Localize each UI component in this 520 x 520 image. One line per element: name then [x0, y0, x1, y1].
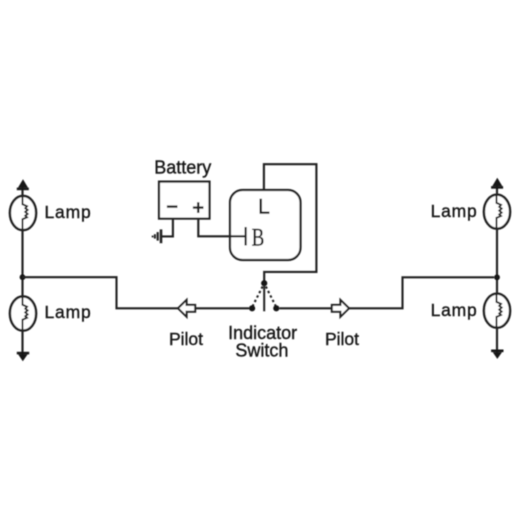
arrow: left pilot (open arrow): [178, 300, 195, 317]
node: right column junction: [494, 274, 500, 280]
ground (chassis, pointing left): [153, 229, 161, 243]
svg-text:Lamp: Lamp: [431, 201, 478, 221]
svg-text:L: L: [258, 195, 270, 219]
arrow: left column bottom: [17, 352, 29, 361]
wire: flasher L loop to switch common: [264, 164, 317, 280]
lamp L1 (left front): [10, 196, 36, 231]
node: switch left contact: [249, 305, 255, 311]
flasher unit U1: [230, 190, 301, 260]
switch dashed throw to left contact: [253, 287, 263, 306]
battery minus terminal label: [167, 205, 178, 207]
svg-text:Pilot: Pilot: [169, 329, 203, 349]
wire: battery negative to ground: [162, 219, 173, 237]
switch lever: [263, 285, 265, 311]
svg-text:Lamp: Lamp: [431, 300, 478, 320]
battery plus terminal label: [193, 202, 204, 213]
arrow: right column top: [491, 178, 503, 189]
lamp L3 (right front): [484, 195, 510, 230]
arrow: right pilot (open arrow): [332, 300, 349, 317]
svg-text:Switch: Switch: [235, 341, 288, 361]
svg-text:Battery: Battery: [154, 157, 211, 177]
svg-text:Lamp: Lamp: [45, 202, 92, 222]
switch dashed throw to right contact: [266, 287, 276, 306]
node: left column junction: [20, 274, 26, 280]
wire: left junction to switch left contact: [23, 277, 250, 308]
wire: battery positive to flasher pin B: [198, 219, 244, 237]
arrow: left column top: [17, 179, 29, 190]
indicator switch S1: common node: [261, 280, 267, 286]
arrow: right column bottom: [491, 350, 503, 359]
svg-text:Lamp: Lamp: [45, 302, 92, 322]
wire: left lamp column vertical: [21, 186, 23, 355]
node: switch right contact: [273, 305, 279, 311]
wire: right lamp column vertical: [496, 185, 498, 354]
svg-text:Pilot: Pilot: [325, 329, 359, 349]
battery BT1: [159, 182, 210, 219]
lamp L4 (right rear): [484, 294, 510, 329]
svg-text:B: B: [252, 223, 265, 251]
flasher pin B terminal tick: [245, 227, 247, 246]
wire: switch right contact to right lamps: [280, 277, 495, 308]
lamp L2 (left rear): [10, 296, 36, 331]
